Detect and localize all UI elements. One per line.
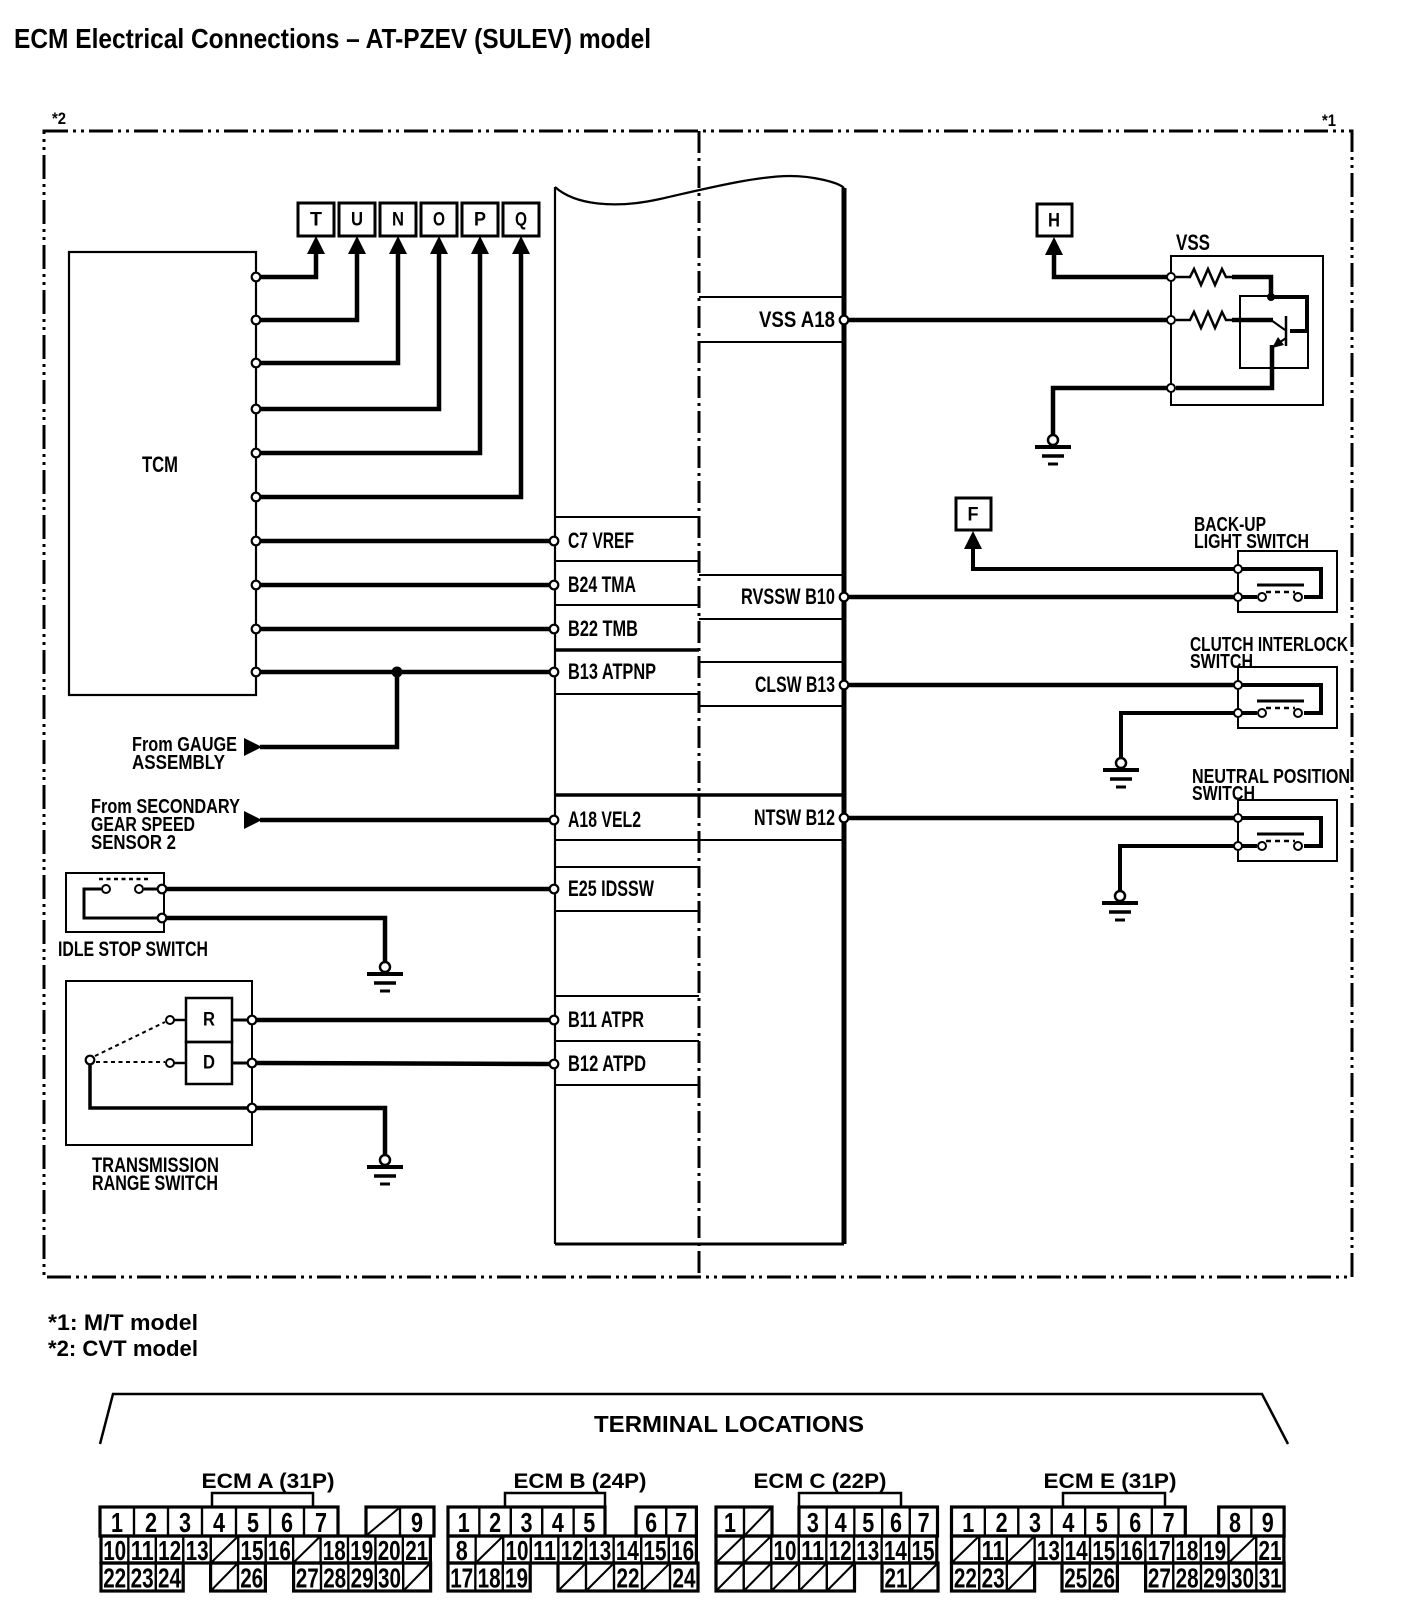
svg-text:24: 24 [673,1563,696,1594]
arrow From SECONDARY GEAR SPEED SENSOR 2 [244,811,262,829]
ECM cell divider left y=605 [555,604,699,606]
neutral position switch moving contact stub [1242,844,1257,848]
ECM B (24P) block outline [558,1563,698,1591]
svg-text:*2: *2 [52,109,66,128]
svg-text:7: 7 [1163,1507,1175,1538]
ECM B (24P) cell 13 [586,1536,614,1563]
VSS pin circle 2 [1167,316,1175,324]
clutch interlock switch contact circle left [1258,709,1266,717]
svg-text:28: 28 [1176,1563,1199,1594]
svg-text:4: 4 [1062,1507,1074,1538]
svg-text:C7 VREF: C7 VREF [568,528,634,553]
ECM cell divider left y=1085 [555,1084,699,1086]
ECM E (31P) cell 1 [952,1507,985,1536]
svg-text:27: 27 [1148,1563,1171,1594]
ECM B (24P) block outline [448,1536,696,1563]
svg-text:6: 6 [645,1507,657,1538]
ECM cell divider right y=342 [699,341,844,343]
ECM B (24P) cell 12 [558,1536,586,1563]
svg-text:3: 3 [521,1507,533,1538]
svg-text:21: 21 [405,1535,428,1566]
back-up light switch pin circle bottom [1234,593,1242,601]
svg-text:2: 2 [145,1507,157,1538]
center dashed divider line [698,131,701,1277]
svg-text:14: 14 [884,1535,907,1566]
ECM A (31P) keying tab [212,1493,313,1507]
wire TCM to B13 ATPNP [259,670,550,675]
ECM E (31P) block outline [952,1563,1035,1591]
ground (VSS) [1035,435,1071,464]
svg-text:4: 4 [213,1507,225,1538]
svg-text:U: U [351,210,363,231]
svg-text:29: 29 [351,1563,374,1594]
svg-text:18: 18 [323,1535,346,1566]
svg-text:3: 3 [807,1507,819,1538]
ECM C (22P) block outline [882,1563,938,1591]
ECM pin circle left y=1064 [550,1060,559,1069]
ECM A (31P) cell 3 [168,1507,202,1536]
svg-text:5: 5 [1096,1507,1108,1538]
ECM B (24P) keying tab [505,1493,605,1507]
VSS pin circle 3 [1167,384,1175,392]
ECM A (31P) cell 1 [100,1507,134,1536]
ECM B (24P) cell 3 [511,1507,542,1536]
svg-text:24: 24 [158,1563,181,1594]
ECM A (31P) cell hatched [293,1536,320,1563]
back-up light switch contact circle left [1258,593,1266,601]
dashed rotor to R [95,1022,165,1056]
svg-text:ECM Electrical Connections – A: ECM Electrical Connections – AT-PZEV (SU… [14,23,651,54]
svg-text:30: 30 [1231,1563,1254,1594]
svg-text:ECM E (31P): ECM E (31P) [1044,1470,1177,1493]
D contact stub [174,1062,186,1065]
svg-text:Q: Q [515,210,527,231]
svg-text:13: 13 [588,1535,611,1566]
TRS pin circle D [248,1059,257,1068]
ECM B (24P) cell 22 [614,1563,642,1591]
ECM pin circle right y=597 [840,593,849,602]
TCM pin circle (B22 TMB wire) [252,625,261,634]
ECM A (31P) block outline [100,1507,338,1536]
ECM cell divider right y=619 [699,618,844,620]
ECM C (22P) cell 21 [882,1563,910,1591]
svg-text:6: 6 [1129,1507,1141,1538]
wire F to back-up light switch [973,548,1234,569]
ECM A (31P) cell 6 [270,1507,304,1536]
wire TCM to Q [259,249,521,497]
ECM A (31P) cell hatched [211,1536,238,1563]
svg-text:14: 14 [1065,1535,1088,1566]
svg-text:11: 11 [131,1535,154,1566]
svg-text:SWITCH: SWITCH [1192,783,1255,805]
ECM C (22P) cell 5 [854,1507,882,1536]
ECM C (22P) cell 3 [799,1507,827,1536]
svg-text:P: P [474,210,486,231]
back-up light switch contact dashed [1266,591,1295,594]
svg-text:31: 31 [1259,1563,1282,1594]
svg-text:29: 29 [1203,1563,1226,1594]
TCM pin circle (Q wire) [252,493,261,502]
R contact circle [166,1016,174,1024]
idle stop switch box [66,873,164,932]
arrow From GAUGE ASSEMBLY [244,738,262,756]
ECM A (31P) cell 11 [128,1536,155,1563]
ECM E (31P) cell 19 [1201,1536,1229,1563]
ECM C (22P) block outline [716,1507,772,1536]
ECM E (31P) cell 5 [1085,1507,1118,1536]
ECM pin circle left y=541 [550,537,559,546]
svg-text:17: 17 [450,1563,473,1594]
svg-text:*2: CVT model: *2: CVT model [48,1336,198,1361]
TCM pin circle (U wire) [252,316,261,325]
ECM A (31P) cell 24 [156,1563,183,1591]
ECM C (22P) cell 12 [826,1536,854,1563]
ECM cell divider left y=996 [555,995,699,997]
ECM E (31P) cell 30 [1229,1563,1257,1591]
svg-text:H: H [1048,211,1060,232]
TCM box [69,252,256,695]
ECM A (31P) cell 9 [400,1507,434,1536]
transistor emitter w/ arrow [1273,338,1286,347]
wire clutch interlock switch to ground [1121,713,1234,758]
ground (idle stop switch) [367,962,403,991]
ECM C (22P) keying tab [799,1493,901,1507]
back-up light switch box [1238,551,1337,612]
ECM E (31P) cell 3 [1018,1507,1051,1536]
wire NTSW B12 to neutral position switch [849,816,1234,821]
neutral position switch pin circle top [1234,814,1242,822]
ECM cell divider left y=561 [555,560,699,562]
ECM B (24P) cell hatched [558,1563,586,1591]
svg-text:10: 10 [506,1535,529,1566]
ECM A (31P) cell 22 [101,1563,128,1591]
svg-text:D: D [203,1053,215,1074]
wire TRS common to ground [257,1108,385,1155]
svg-text:E25 IDSSW: E25 IDSSW [568,876,654,901]
TRS pin circle common [248,1104,257,1113]
ECM E (31P) cell 8 [1219,1507,1252,1536]
ground (transmission range switch) [367,1155,403,1184]
svg-text:ECM C (22P): ECM C (22P) [754,1470,887,1493]
svg-text:VSS A18: VSS A18 [759,307,835,332]
ECM E (31P) cell 26 [1090,1563,1118,1591]
ECM E (31P) cell 25 [1062,1563,1090,1591]
wire rotor to common pin [90,1064,247,1108]
connector ref O box [421,203,457,236]
svg-text:18: 18 [478,1563,501,1594]
ECM B (24P) cell 7 [666,1507,696,1536]
svg-text:TERMINAL LOCATIONS: TERMINAL LOCATIONS [594,1411,864,1437]
svg-text:4: 4 [835,1507,847,1538]
svg-text:VSS: VSS [1176,230,1210,255]
ECM B (24P) block outline [448,1507,605,1536]
svg-text:21: 21 [1259,1535,1282,1566]
ECM pin circle left y=889 [550,885,559,894]
svg-text:5: 5 [862,1507,874,1538]
clutch interlock switch moving contact stub [1242,711,1257,715]
svg-text:8: 8 [456,1535,468,1566]
ECM A (31P) block outline [294,1563,431,1591]
svg-text:1: 1 [458,1507,470,1538]
wire TCM to N [259,249,398,363]
ECM C (22P) cell hatched [910,1563,938,1591]
clutch interlock switch contact dashed [1266,707,1295,710]
svg-text:8: 8 [1229,1507,1241,1538]
svg-text:11: 11 [982,1535,1005,1566]
collector path along box edges [1271,297,1307,331]
svg-text:2: 2 [996,1507,1008,1538]
ECM B (24P) cell 15 [641,1536,669,1563]
ECM C (22P) cell 11 [799,1536,827,1563]
ECM A (31P) cell hatched [366,1507,400,1536]
svg-text:O: O [433,210,445,231]
resistor R2 (VSS base) [1176,312,1232,328]
ECM C (22P) cell 15 [909,1536,937,1563]
svg-text:TCM: TCM [142,452,178,477]
ECM E (31P) cell 11 [979,1536,1007,1563]
svg-text:17: 17 [1148,1535,1171,1566]
transistor Q1 base bar [1285,316,1288,346]
junction dot collector [1267,293,1275,301]
idle stop switch contact left [102,885,110,893]
ECM E (31P) cell hatched [1229,1536,1257,1563]
svg-text:12: 12 [561,1535,584,1566]
ECM cell divider left y=1041 [555,1040,699,1042]
svg-text:26: 26 [240,1563,263,1594]
ECM B (24P) block outline [636,1507,696,1536]
ECM B (24P) cell 10 [503,1536,531,1563]
ECM E (31P) cell 28 [1173,1563,1201,1591]
ECM C (22P) cell 1 [716,1507,744,1536]
ECM E (31P) cell 7 [1152,1507,1185,1536]
ECM B (24P) cell 2 [479,1507,510,1536]
svg-text:B13 ATPNP: B13 ATPNP [568,659,656,684]
svg-text:RANGE SWITCH: RANGE SWITCH [92,1172,218,1195]
svg-text:26: 26 [1092,1563,1115,1594]
ECM pin circle left y=1020 [550,1016,559,1025]
arrow into N [389,236,407,254]
svg-text:B22 TMB: B22 TMB [568,616,638,641]
ECM E (31P) block outline [952,1536,1284,1563]
neutral position switch contact dashed [1266,840,1295,843]
ECM E (31P) cell 18 [1173,1536,1201,1563]
ECM A (31P) cell 12 [156,1536,183,1563]
svg-text:SWITCH: SWITCH [1190,651,1253,673]
ECM B (24P) cell 4 [542,1507,573,1536]
wire CLSW B13 to clutch interlock switch [849,683,1234,688]
clutch interlock switch contact bar [1257,700,1304,703]
ECM A (31P) cell 23 [128,1563,155,1591]
svg-text:3: 3 [179,1507,191,1538]
ECM E (31P) cell hatched [952,1536,980,1563]
ECM connector strip outline [555,176,844,1244]
R position box [186,998,232,1042]
ECM left edge [554,187,556,1244]
arrow into O [430,236,448,254]
connector ref H box [1037,204,1072,236]
rotor pivot circle [86,1056,95,1065]
wire R2 to base [1232,318,1273,323]
ground (clutch interlock switch) [1103,758,1139,787]
svg-text:4: 4 [552,1507,564,1538]
TCM pin circle (T wire) [252,273,261,282]
TCM pin circle (B13 ATPNP wire) [252,668,261,677]
ECM pin circle right y=320 [840,316,849,325]
svg-text:SENSOR 2: SENSOR 2 [91,832,176,854]
wire TCM to O [259,249,439,409]
svg-text:10: 10 [774,1535,797,1566]
TCM pin circle (P wire) [252,449,261,458]
svg-text:10: 10 [103,1535,126,1566]
svg-text:CLSW B13: CLSW B13 [755,672,835,697]
idle stop switch dashed line [99,878,148,881]
ECM C (22P) cell hatched [799,1563,827,1591]
ECM E (31P) cell 4 [1052,1507,1085,1536]
svg-text:16: 16 [268,1535,291,1566]
svg-text:13: 13 [186,1535,209,1566]
svg-text:30: 30 [378,1563,401,1594]
clutch interlock switch internal wire [1242,685,1321,713]
svg-text:3: 3 [1029,1507,1041,1538]
back-up light switch contact circle right [1294,593,1302,601]
ECM E (31P) cell 31 [1256,1563,1284,1591]
ECM A (31P) cell 13 [183,1536,210,1563]
svg-text:21: 21 [885,1563,908,1594]
ECM cell divider right y=706 [699,705,844,707]
ECM A (31P) cell 16 [266,1536,293,1563]
svg-text:11: 11 [533,1535,556,1566]
svg-text:N: N [392,210,404,231]
ECM cell divider left y=694 [555,693,699,695]
svg-text:7: 7 [918,1507,930,1538]
ECM E (31P) block outline [1062,1563,1117,1591]
clutch interlock switch pin circle bottom [1234,709,1242,717]
ECM C (22P) cell hatched [744,1563,772,1591]
svg-text:7: 7 [315,1507,327,1538]
ECM A (31P) cell 4 [202,1507,236,1536]
ECM A (31P) cell 5 [236,1507,270,1536]
VSS pin circle 1 [1167,273,1175,281]
svg-text:B12 ATPD: B12 ATPD [568,1051,646,1076]
svg-text:IDLE STOP SWITCH: IDLE STOP SWITCH [58,938,208,961]
ECM B (24P) cell 14 [614,1536,642,1563]
ECM C (22P) block outline [716,1563,855,1591]
TCM pin circle (O wire) [252,405,261,414]
ECM E (31P) cell 27 [1146,1563,1174,1591]
ECM E (31P) cell 2 [985,1507,1018,1536]
ECM cell divider left y=911 [555,910,699,912]
ECM A (31P) cell 30 [376,1563,403,1591]
ECM C (22P) cell 14 [882,1536,910,1563]
back-up light switch pin circle top [1234,565,1242,573]
wire idle stop switch to E25 IDSSW [167,887,550,892]
svg-text:19: 19 [505,1563,528,1594]
svg-text:2: 2 [489,1507,501,1538]
wire idle stop switch to ground [167,918,385,962]
svg-text:23: 23 [131,1563,154,1594]
back-up light switch moving contact stub [1242,595,1257,599]
base diagonal [1271,320,1285,330]
junction dot on B13 ATPNP wire [392,667,403,678]
ECM C (22P) cell 13 [854,1536,882,1563]
svg-text:1: 1 [111,1507,123,1538]
ECM A (31P) block outline [101,1536,430,1563]
svg-text:13: 13 [1037,1535,1060,1566]
arrow into F [964,531,982,549]
idle stop switch contact right [135,885,143,893]
TCM pin circle (B24 TMA wire) [252,581,261,590]
R contact stub [174,1019,186,1022]
ECM C (22P) cell 4 [827,1507,855,1536]
neutral position switch box [1238,800,1337,861]
svg-text:LIGHT SWITCH: LIGHT SWITCH [1194,531,1309,553]
svg-text:B24 TMA: B24 TMA [568,572,636,597]
ECM B (24P) cell 6 [636,1507,666,1536]
wire TCM to P [259,249,480,453]
ECM A (31P) cell hatched [403,1563,430,1591]
transistor inner box [1240,296,1308,368]
svg-text:20: 20 [378,1535,401,1566]
svg-text:9: 9 [1262,1507,1274,1538]
ECM pin circle right y=685 [840,681,849,690]
svg-text:11: 11 [801,1535,824,1566]
connector ref T box [298,203,334,236]
wire TRS R to B11 ATPR [257,1018,550,1023]
ECM E (31P) cell 14 [1062,1536,1090,1563]
D position box [186,1042,232,1084]
svg-text:B11 ATPR: B11 ATPR [568,1007,644,1032]
svg-text:15: 15 [241,1535,264,1566]
resistor R1 (VSS pull-up) [1176,269,1232,285]
ECM B (24P) cell 24 [670,1563,698,1591]
clutch interlock switch contact circle right [1294,709,1302,717]
wire secondary gear speed sensor to A18 VEL2 [260,818,550,823]
svg-text:A18 VEL2: A18 VEL2 [568,807,641,832]
back-up light switch internal wire [1242,569,1321,597]
wire TCM to U [259,249,357,320]
ECM C (22P) block outline [716,1536,937,1563]
svg-text:ECM A (31P): ECM A (31P) [202,1470,335,1493]
ECM B (24P) cell 5 [574,1507,605,1536]
ECM E (31P) cell 13 [1035,1536,1063,1563]
ECM E (31P) keying tab [1063,1493,1165,1507]
svg-text:14: 14 [616,1535,639,1566]
wire TCM to C7 VREF [259,539,550,544]
ECM E (31P) block outline [952,1507,1186,1536]
svg-text:15: 15 [1092,1535,1115,1566]
TCM pin circle (C7 VREF wire) [252,537,261,546]
ECM A (31P) cell 2 [134,1507,168,1536]
svg-text:27: 27 [296,1563,319,1594]
ECM pin circle left y=820 [550,816,559,825]
ECM cell divider right y=840 [699,839,844,841]
idle stop switch pin circle bottom [158,914,167,923]
ECM C (22P) cell hatched [771,1563,799,1591]
emitter down wire [1176,345,1272,388]
svg-text:6: 6 [890,1507,902,1538]
svg-text:F: F [968,505,979,526]
neutral position switch contact circle left [1258,842,1266,850]
wire TCM to B22 TMB [259,627,550,632]
TRS pin circle R [248,1016,257,1025]
neutral position switch internal wire [1242,818,1321,846]
svg-text:28: 28 [323,1563,346,1594]
svg-text:5: 5 [247,1507,259,1538]
ECM A (31P) cell 20 [376,1536,403,1563]
ECM pin circle left y=629 [550,625,559,634]
ECM right edge [842,188,847,1244]
ECM E (31P) cell 17 [1145,1536,1173,1563]
